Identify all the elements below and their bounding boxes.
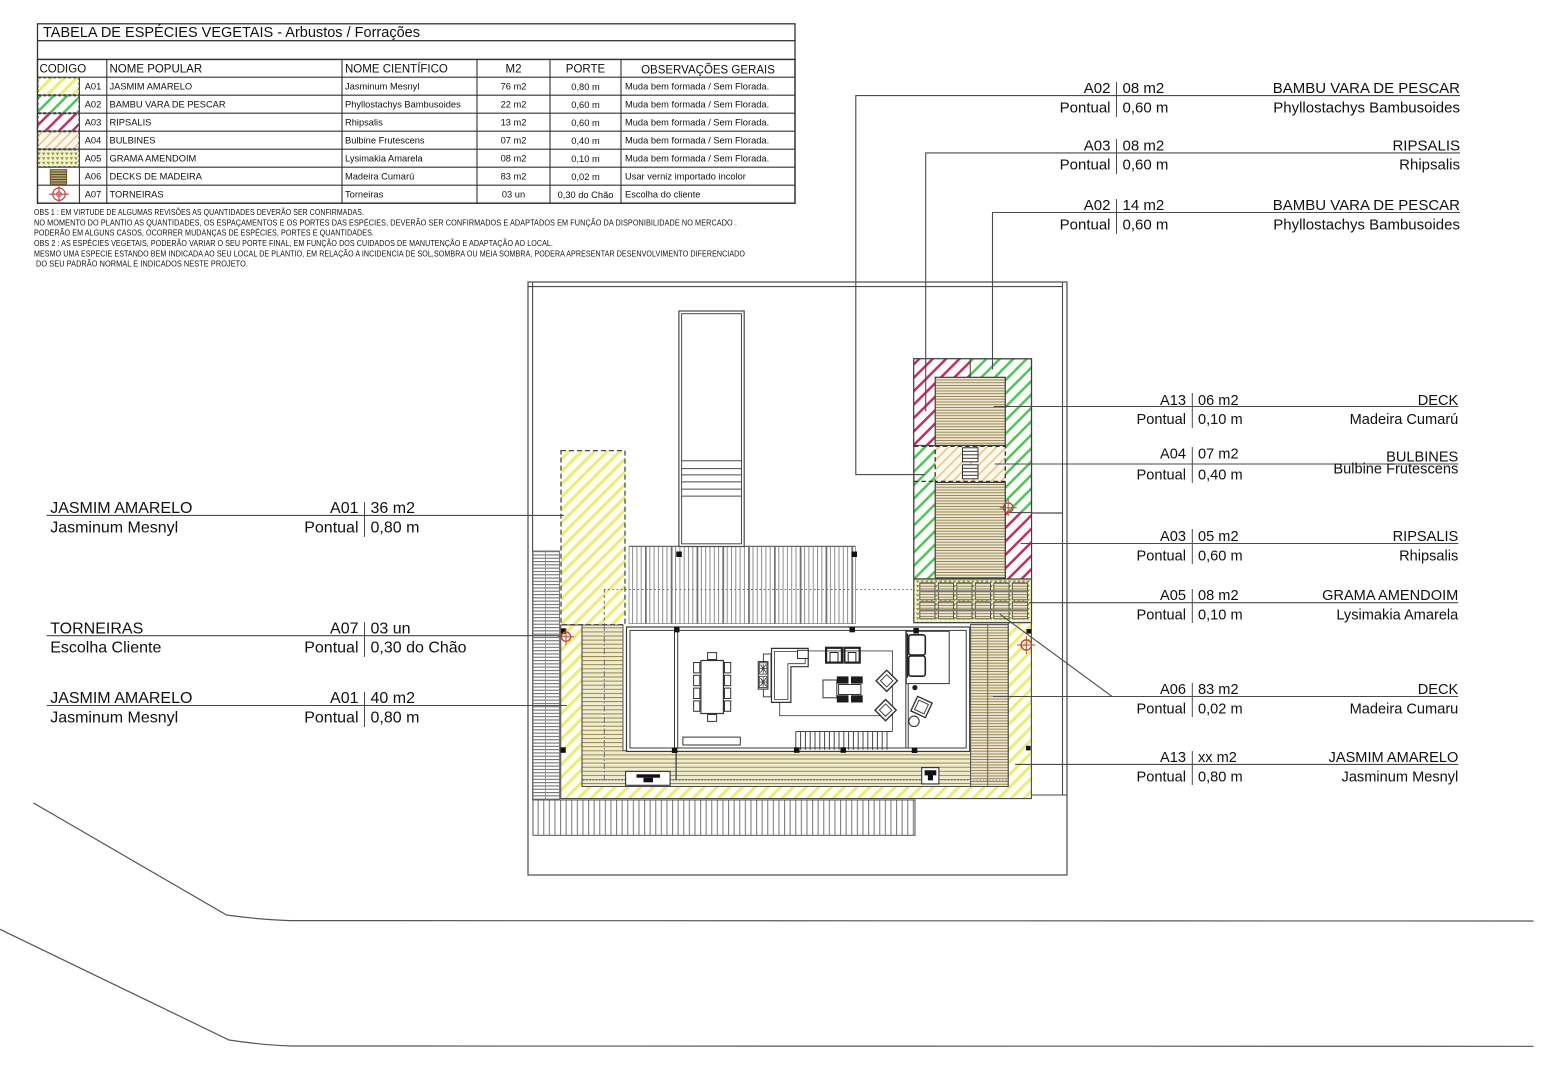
table gap side borders xyxy=(37,41,39,60)
svg-text:07 m2: 07 m2 xyxy=(501,136,527,146)
annotation R1 text xyxy=(1060,80,1461,116)
svg-text:0,80 m: 0,80 m xyxy=(571,82,600,92)
site boundary inner top xyxy=(528,286,1063,288)
svg-text:07 m2: 07 m2 xyxy=(1198,447,1239,463)
svg-text:GRAMA AMENDOIM: GRAMA AMENDOIM xyxy=(110,154,197,164)
svg-text:83 m2: 83 m2 xyxy=(1198,682,1239,698)
svg-text:Pontual: Pontual xyxy=(304,640,358,657)
svg-text:Jasminum Mesnyl: Jasminum Mesnyl xyxy=(345,82,419,92)
svg-text:A05: A05 xyxy=(85,154,102,164)
svg-text:76 m2: 76 m2 xyxy=(501,82,527,92)
suite sofa cushions xyxy=(909,635,926,676)
sideboard xyxy=(683,737,740,745)
svg-text:JASMIM AMARELO: JASMIM AMARELO xyxy=(50,500,192,517)
tap crosshair strip xyxy=(1000,499,1017,516)
tick R4 xyxy=(1191,393,1193,428)
svg-text:05 m2: 05 m2 xyxy=(1198,529,1239,545)
annotation L1 text xyxy=(50,500,419,537)
jasmim planting bed A01 36m2 xyxy=(561,451,625,625)
svg-text:08 m2: 08 m2 xyxy=(1123,137,1165,154)
leader L1 jasmim 36m2 xyxy=(47,514,564,516)
svg-text:A13: A13 xyxy=(1160,750,1186,766)
svg-text:Escolha Cliente: Escolha Cliente xyxy=(50,640,161,657)
annotation R9 text xyxy=(1137,750,1459,785)
observacoes cells xyxy=(625,82,769,200)
svg-text:A02: A02 xyxy=(85,100,102,110)
hidden dashed line vertical xyxy=(603,590,605,625)
svg-text:Madeira Cumarú: Madeira Cumarú xyxy=(345,172,414,182)
svg-text:0,40 m: 0,40 m xyxy=(1198,467,1243,483)
suite partition wall xyxy=(905,630,907,748)
tick R1 xyxy=(1116,82,1118,117)
svg-text:14 m2: 14 m2 xyxy=(1123,197,1165,214)
svg-text:Pontual: Pontual xyxy=(1137,467,1187,483)
leader L2 torneiras xyxy=(47,635,562,637)
svg-text:BAMBU VARA DE PESCAR: BAMBU VARA DE PESCAR xyxy=(1273,80,1460,97)
svg-text:0,10 m: 0,10 m xyxy=(571,154,600,164)
svg-text:RIPSALIS: RIPSALIS xyxy=(1392,137,1460,154)
stairs xyxy=(796,732,893,750)
leader R4 deck 06m2 xyxy=(994,406,1459,408)
svg-text:Pontual: Pontual xyxy=(1137,770,1187,786)
jasmim band A01 40m2 xyxy=(561,623,1032,799)
annotation R3 text xyxy=(1060,197,1461,233)
kitchen island with burners xyxy=(758,662,768,690)
svg-text:Pontual: Pontual xyxy=(1060,100,1111,117)
svg-text:BULBINES: BULBINES xyxy=(110,136,156,146)
svg-text:0,10 m: 0,10 m xyxy=(1198,412,1243,428)
leader R6 ripsalis 05m2 xyxy=(1021,543,1459,545)
sidewalk hatched band bottom xyxy=(533,800,915,835)
svg-text:03 un: 03 un xyxy=(502,190,525,200)
svg-text:Rhipsalis: Rhipsalis xyxy=(1399,548,1458,564)
lounge chair rotated 1 xyxy=(876,670,897,691)
obs paragraph xyxy=(34,207,745,269)
svg-text:Usar verniz importado incolor: Usar verniz importado incolor xyxy=(625,172,746,182)
leader R1 bambu 08m2 xyxy=(856,96,1460,475)
coffee table xyxy=(823,680,837,698)
svg-text:A02: A02 xyxy=(1084,197,1111,214)
bench on deck left xyxy=(626,771,671,785)
leader R8 deck 83m2 xyxy=(993,696,1458,698)
svg-text:A01: A01 xyxy=(330,690,359,707)
m2 cells xyxy=(501,82,527,200)
svg-text:22 m2: 22 m2 xyxy=(501,100,527,110)
svg-text:0,40 m: 0,40 m xyxy=(571,136,600,146)
svg-text:A04: A04 xyxy=(85,136,102,146)
bulbines bed A04 xyxy=(935,446,1005,481)
annotation R2 text xyxy=(1060,137,1460,173)
deck A06 wrap-around band xyxy=(582,625,971,787)
living area outline xyxy=(808,651,892,732)
svg-text:A04: A04 xyxy=(1160,447,1186,463)
svg-text:Pontual: Pontual xyxy=(1137,701,1187,717)
armchair 2 xyxy=(844,648,859,663)
tower internal stair treads xyxy=(682,461,742,496)
svg-text:08 m2: 08 m2 xyxy=(501,154,527,164)
bottom-right step line xyxy=(1031,794,1067,796)
L sofa xyxy=(772,648,809,702)
svg-text:0,30 do Chão: 0,30 do Chão xyxy=(558,190,614,200)
suite chair rotated xyxy=(911,696,932,717)
svg-text:NO MOMENTO DO PLANTIO AS QUANT: NO MOMENTO DO PLANTIO AS QUANTIDADES, OS… xyxy=(34,217,737,227)
svg-text:xx m2: xx m2 xyxy=(1198,750,1237,766)
svg-text:Pontual: Pontual xyxy=(1137,607,1187,623)
svg-text:JASMIM AMARELO: JASMIM AMARELO xyxy=(1329,750,1459,766)
svg-text:RIPSALIS: RIPSALIS xyxy=(110,118,152,128)
svg-text:0,02 m: 0,02 m xyxy=(571,172,600,182)
svg-text:Phyllostachys Bambusoides: Phyllostachys Bambusoides xyxy=(345,100,461,110)
leader R5 bulbines xyxy=(995,463,1459,465)
annotation R7 text xyxy=(1137,588,1460,623)
svg-text:Pontual: Pontual xyxy=(304,710,358,727)
deck edge dotted xyxy=(583,779,1008,781)
suite stool circle xyxy=(909,716,919,726)
svg-text:DECKS DE MADEIRA: DECKS DE MADEIRA xyxy=(110,172,203,182)
annotation R6 text xyxy=(1137,529,1459,565)
column markers xyxy=(560,552,1031,754)
svg-text:Lysimakia Amarela: Lysimakia Amarela xyxy=(1336,607,1459,623)
road upper curb line xyxy=(34,803,1534,921)
svg-text:Pontual: Pontual xyxy=(1060,216,1111,233)
table row lines xyxy=(38,77,796,185)
svg-text:PORTE: PORTE xyxy=(566,64,606,76)
nome cientifico cells xyxy=(345,82,461,200)
svg-text:Pontual: Pontual xyxy=(1137,412,1187,428)
leader R7 grama xyxy=(1029,602,1458,604)
bamboo bed A02 base (green frame) xyxy=(914,359,1032,579)
swatch A02 xyxy=(38,96,79,113)
svg-text:06 m2: 06 m2 xyxy=(1198,393,1239,409)
annotation R4 text xyxy=(1137,393,1459,428)
tick L2 xyxy=(364,622,366,657)
svg-text:A02: A02 xyxy=(1084,80,1111,97)
svg-text:40 m2: 40 m2 xyxy=(371,690,416,707)
svg-text:Bulbine Frutescens: Bulbine Frutescens xyxy=(345,136,425,146)
annotation R8 text xyxy=(1137,682,1459,717)
code cells xyxy=(85,82,102,200)
leader R8 diagonal xyxy=(1000,614,1112,696)
svg-text:0,60 m: 0,60 m xyxy=(1123,157,1169,174)
bench on deck right xyxy=(922,768,939,784)
grama amendoim bed A05 xyxy=(914,579,1032,623)
annotation L2 text xyxy=(50,621,466,657)
svg-text:BAMBU VARA DE PESCAR: BAMBU VARA DE PESCAR xyxy=(1273,197,1460,214)
svg-text:0,60 m: 0,60 m xyxy=(1123,100,1169,117)
svg-text:OBS 1 : EM VIRTUDE DE ALGUMAS: OBS 1 : EM VIRTUDE DE ALGUMAS REVISÕES A… xyxy=(34,207,364,217)
kitchen counter xyxy=(763,654,771,697)
swatch A03 xyxy=(38,114,79,131)
svg-text:JASMIM AMARELO: JASMIM AMARELO xyxy=(50,690,192,707)
svg-text:A06: A06 xyxy=(85,172,102,182)
svg-text:NOME POPULAR: NOME POPULAR xyxy=(110,64,203,76)
garage wall extension xyxy=(675,751,677,780)
svg-text:A06: A06 xyxy=(1160,682,1186,698)
site boundary outer xyxy=(528,282,1067,875)
swatch A07 tap icon xyxy=(49,185,68,204)
svg-text:0,80 m: 0,80 m xyxy=(1198,770,1243,786)
hidden dotted line across court xyxy=(604,589,915,591)
svg-text:Muda bem formada / Sem Florada: Muda bem formada / Sem Florada. xyxy=(625,136,769,146)
svg-text:A07: A07 xyxy=(330,621,359,638)
swatch A04 xyxy=(38,132,79,149)
planter ladder 1 xyxy=(963,448,979,462)
tick L1 xyxy=(364,502,366,537)
svg-text:Madeira Cumaru: Madeira Cumaru xyxy=(1350,701,1459,717)
svg-text:A13: A13 xyxy=(1160,393,1186,409)
tick L3 xyxy=(364,692,366,727)
leader L3 jasmim 40m2 xyxy=(47,705,567,707)
floor cushions xyxy=(837,676,863,702)
annotation L3 text xyxy=(50,690,419,727)
svg-text:0,80 m: 0,80 m xyxy=(371,710,420,727)
svg-text:Pontual: Pontual xyxy=(1137,548,1187,564)
svg-text:TORNEIRAS: TORNEIRAS xyxy=(110,190,164,200)
svg-text:A03: A03 xyxy=(1084,137,1111,154)
svg-text:A05: A05 xyxy=(1160,588,1186,604)
svg-text:Phyllostachys Bambusoides: Phyllostachys Bambusoides xyxy=(1273,100,1460,117)
svg-text:PODERÃO EM ALGUNS CASOS, OCOR: PODERÃO EM ALGUNS CASOS, OCORRER MUDANÇA… xyxy=(34,228,374,238)
svg-text:0,10 m: 0,10 m xyxy=(1198,607,1243,623)
tick R7 xyxy=(1191,589,1193,623)
svg-text:Jasminum Mesnyl: Jasminum Mesnyl xyxy=(1342,770,1459,786)
small dot xyxy=(912,685,917,690)
svg-text:M2: M2 xyxy=(506,64,522,76)
house outer wall xyxy=(627,627,970,751)
tick R9 xyxy=(1191,751,1193,785)
svg-text:GRAMA AMENDOIM: GRAMA AMENDOIM xyxy=(1322,588,1458,604)
svg-text:TORNEIRAS: TORNEIRAS xyxy=(50,621,143,638)
svg-text:0,60 m: 0,60 m xyxy=(1198,548,1243,564)
svg-text:RIPSALIS: RIPSALIS xyxy=(1393,529,1459,545)
svg-text:36 m2: 36 m2 xyxy=(371,500,416,517)
svg-text:Pontual: Pontual xyxy=(304,520,358,537)
dining table xyxy=(701,661,724,714)
svg-text:Madeira Cumarú: Madeira Cumarú xyxy=(1350,412,1459,428)
svg-text:A01: A01 xyxy=(85,82,102,92)
deck right band xyxy=(971,624,1009,786)
svg-text:0,60 m: 0,60 m xyxy=(1123,216,1169,233)
svg-text:Muda bem formada / Sem Florada: Muda bem formada / Sem Florada. xyxy=(625,100,769,110)
tap crosshair right xyxy=(1017,636,1035,654)
dining chairs xyxy=(694,653,731,722)
left wall hatched strip xyxy=(533,551,560,800)
svg-text:MESMO UMA ESPECIE ESTANDO BEM: MESMO UMA ESPECIE ESTANDO BEM INDICADA A… xyxy=(34,248,745,258)
deck A13 upper xyxy=(935,377,1005,445)
svg-text:OBSERVAÇÕES GERAIS: OBSERVAÇÕES GERAIS xyxy=(641,64,775,77)
svg-text:TABELA DE ESPÉCIES VEGETAIS -: TABELA DE ESPÉCIES VEGETAIS - Arbustos /… xyxy=(43,24,420,41)
site boundary inner right xyxy=(1062,282,1064,795)
swatch A05 xyxy=(38,150,79,167)
svg-text:Lysimakia Amarela: Lysimakia Amarela xyxy=(345,154,424,164)
svg-text:0,80 m: 0,80 m xyxy=(371,520,420,537)
svg-text:Muda bem formada / Sem Florada: Muda bem formada / Sem Florada. xyxy=(625,118,769,128)
nome popular cells xyxy=(110,82,226,200)
tick R2 xyxy=(1116,139,1118,174)
svg-text:Jasminum Mesnyl: Jasminum Mesnyl xyxy=(50,520,178,537)
svg-text:NOME CIENTÍFICO: NOME CIENTÍFICO xyxy=(345,63,448,76)
lounge chair rotated 2 xyxy=(875,699,896,720)
svg-text:CODIGO: CODIGO xyxy=(40,64,87,76)
svg-text:0,60 m: 0,60 m xyxy=(571,100,600,110)
deck joint line right xyxy=(987,624,989,786)
planter ladder 2 xyxy=(963,465,979,479)
svg-text:08 m2: 08 m2 xyxy=(1198,588,1239,604)
svg-text:Rhipsalis: Rhipsalis xyxy=(1399,157,1460,174)
leader R2 ripsalis 08m2 xyxy=(926,153,1460,411)
tick R8 xyxy=(1191,683,1193,717)
svg-text:DECK: DECK xyxy=(1418,393,1459,409)
svg-text:JASMIM AMARELO: JASMIM AMARELO xyxy=(110,82,193,92)
svg-text:Torneiras: Torneiras xyxy=(345,190,384,200)
leader R3 bambu 14m2 xyxy=(993,213,1461,370)
tick R6 xyxy=(1191,529,1193,564)
svg-text:Bulbine Frutescens: Bulbine Frutescens xyxy=(1333,461,1458,477)
svg-text:0,60 m: 0,60 m xyxy=(571,118,600,128)
leader R9 jasmim xx xyxy=(1015,763,1458,765)
stair tower xyxy=(679,311,744,547)
svg-text:OBS 2 : AS ESPÉCIES VEGETAIS,: OBS 2 : AS ESPÉCIES VEGETAIS, PODERÃO VA… xyxy=(34,238,553,248)
svg-text:DO SEU PADRÃO NORMAL E INDICAD: DO SEU PADRÃO NORMAL E INDICADOS NESTE P… xyxy=(36,259,248,269)
header row text xyxy=(40,63,776,77)
svg-text:0,30 do Chão: 0,30 do Chão xyxy=(371,640,467,657)
svg-text:BAMBU VARA DE PESCAR: BAMBU VARA DE PESCAR xyxy=(110,100,226,110)
porte cells xyxy=(558,82,614,200)
tick R5 xyxy=(1191,447,1193,483)
svg-text:Escolha do cliente: Escolha do cliente xyxy=(625,190,700,200)
svg-text:A07: A07 xyxy=(85,190,102,200)
svg-text:Muda bem formada / Sem Florada: Muda bem formada / Sem Florada. xyxy=(625,82,769,92)
svg-text:Rhipsalis: Rhipsalis xyxy=(345,118,383,128)
suite bed xyxy=(906,631,949,683)
annotation R5 text xyxy=(1137,447,1459,484)
svg-text:08 m2: 08 m2 xyxy=(1123,80,1165,97)
svg-text:Muda bem formada / Sem Florada: Muda bem formada / Sem Florada. xyxy=(625,154,769,164)
svg-text:A01: A01 xyxy=(330,500,359,517)
garage partition wall xyxy=(674,630,676,748)
grama planter cells xyxy=(920,583,1028,619)
swatch A01 xyxy=(38,78,79,95)
svg-text:0,02 m: 0,02 m xyxy=(1198,701,1243,717)
svg-text:A03: A03 xyxy=(1160,529,1186,545)
svg-text:13 m2: 13 m2 xyxy=(501,118,527,128)
site boundary inner left xyxy=(532,282,534,800)
tick R3 xyxy=(1116,199,1118,234)
svg-text:03 un: 03 un xyxy=(371,621,411,638)
swatch A06 deck icon xyxy=(50,170,66,185)
svg-text:Phyllostachys Bambusoides: Phyllostachys Bambusoides xyxy=(1273,216,1460,233)
ripsalis bed A03 top-left xyxy=(914,359,970,446)
svg-text:DECK: DECK xyxy=(1418,682,1459,698)
svg-text:Jasminum Mesnyl: Jasminum Mesnyl xyxy=(50,710,178,727)
svg-text:A03: A03 xyxy=(85,118,102,128)
tap crosshair left xyxy=(558,629,574,645)
svg-text:Pontual: Pontual xyxy=(1060,157,1111,174)
table column lines xyxy=(79,59,621,203)
armchair 1 xyxy=(826,648,842,663)
road lower curb line xyxy=(0,929,1534,1046)
species table title box xyxy=(38,24,796,41)
deck joint dashdot xyxy=(603,625,605,781)
svg-text:83 m2: 83 m2 xyxy=(501,172,527,182)
species table main frame xyxy=(38,59,796,203)
ripsalis bed A03 bottom-right xyxy=(1005,513,1031,579)
deck A13 lower xyxy=(935,482,1005,578)
paving vertical-striped court xyxy=(629,546,855,623)
wall segment to boundary xyxy=(1032,512,1064,514)
